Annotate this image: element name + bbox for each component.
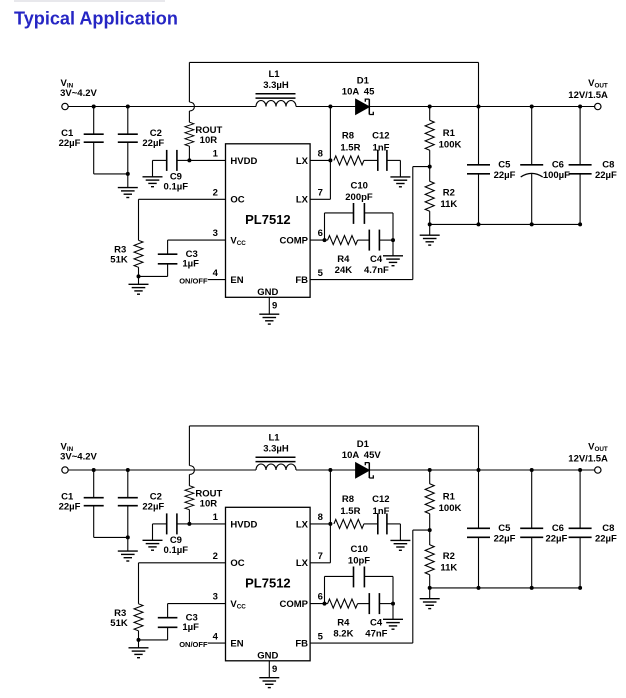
svg-text:Typical Application: Typical Application [14, 9, 178, 29]
svg-text:45: 45 [364, 86, 375, 97]
svg-text:100µF: 100µF [543, 170, 570, 181]
svg-text:45V: 45V [364, 450, 382, 461]
svg-text:10pF: 10pF [348, 556, 370, 567]
svg-text:8.2K: 8.2K [333, 628, 353, 639]
svg-text:200pF: 200pF [345, 192, 373, 203]
svg-text:47nF: 47nF [365, 628, 387, 639]
svg-text:4.7nF: 4.7nF [364, 265, 389, 276]
svg-text:24K: 24K [335, 265, 353, 276]
svg-text:22µF: 22µF [545, 533, 567, 544]
